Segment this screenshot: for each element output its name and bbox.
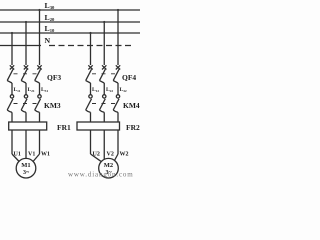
contactor KM3 pole 2 <box>21 95 27 122</box>
svg-text:V1: V1 <box>28 152 35 158</box>
wire phase2 left (L20 tap) <box>25 22 27 65</box>
thermal relay FR2 box <box>77 122 120 130</box>
wire slant into M1 right <box>33 154 40 162</box>
breaker QF4 pole 2 <box>99 65 106 94</box>
contactor KM3 pole 3 <box>35 95 42 122</box>
breaker QF4 pole 3 <box>113 65 120 94</box>
svg-text:QF4: QF4 <box>122 73 136 82</box>
contactor KM4 pole 2 <box>99 95 106 122</box>
QF3 linkage dashed <box>14 73 37 75</box>
svg-text:FR1: FR1 <box>57 123 71 132</box>
svg-text:FR2: FR2 <box>126 123 140 132</box>
svg-text:QF3: QF3 <box>47 73 61 82</box>
svg-text:W1: W1 <box>41 152 50 158</box>
bus L10 <box>0 32 140 34</box>
wire slant into M2 left <box>91 154 102 162</box>
svg-text:V2: V2 <box>107 152 114 158</box>
junction dot L20/left <box>25 21 27 23</box>
contactor KM3 pole 1 <box>7 95 14 122</box>
bus L20 <box>0 21 140 23</box>
svg-text:KM4: KM4 <box>123 101 140 110</box>
breaker QF3 pole 2 <box>21 65 28 94</box>
junction dot L30/left <box>38 9 40 11</box>
breaker QF3 pole 3 <box>35 65 42 94</box>
bus L30 <box>0 9 140 11</box>
svg-text:W2: W2 <box>120 152 129 158</box>
FR1 wires through <box>11 130 13 154</box>
KM4 linkage dashed <box>92 103 115 105</box>
wire phase3 left (L30 tap) <box>39 10 41 65</box>
FR2 wires through <box>90 130 92 154</box>
svg-text:U2: U2 <box>93 152 100 158</box>
svg-text:KM3: KM3 <box>44 101 61 110</box>
svg-text:3~: 3~ <box>23 170 30 176</box>
junction dot L30/right <box>117 9 119 11</box>
svg-text:www.diangon.com: www.diangon.com <box>68 171 134 179</box>
bus N dashed part <box>49 45 134 47</box>
wire phase1 right (L10 tap) <box>90 33 92 65</box>
motor M1 circle <box>16 158 36 178</box>
motor M2 circle <box>99 158 119 178</box>
wire phase3 right (L30 tap) <box>117 10 119 65</box>
breaker QF4 pole 1 <box>86 65 93 94</box>
junction dot L10/right <box>89 32 91 34</box>
thermal relay FR1 box <box>9 122 47 130</box>
svg-text:U1: U1 <box>14 152 21 158</box>
breaker QF3 pole 1 <box>7 65 14 94</box>
contactor KM4 pole 1 <box>86 95 93 122</box>
junction dot L10/left <box>11 32 13 34</box>
KM3 linkage dashed <box>14 103 37 105</box>
wire phase1 left (L10 tap) <box>11 33 13 65</box>
svg-text:M1: M1 <box>21 162 30 169</box>
wire phase2 right (L20 tap) <box>103 22 105 65</box>
svg-text:N: N <box>45 36 51 45</box>
wire slant into M1 left <box>12 154 20 162</box>
wire slant into M2 right <box>114 154 118 161</box>
contactor KM4 pole 3 <box>113 95 120 122</box>
junction dot L20/right <box>103 21 105 23</box>
bus N solid part <box>0 45 41 47</box>
QF4 linkage dashed <box>92 73 115 75</box>
svg-text:M2: M2 <box>104 162 113 169</box>
